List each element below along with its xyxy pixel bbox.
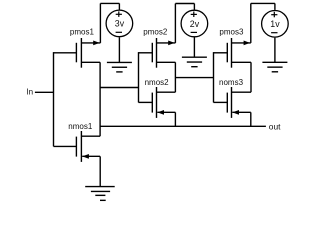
node out label	[269, 122, 281, 132]
nmos nmos2 gate bar	[151, 93, 153, 113]
wire stage1 to stage2 gates branch	[100, 87, 138, 89]
voltage source V1 value 3v	[115, 19, 125, 29]
svg-text:In: In	[26, 88, 33, 97]
ground G1 bar 2	[112, 66, 127, 68]
nmos noms3 source lead	[232, 111, 251, 113]
pmos pmos2 drain lead	[157, 61, 176, 63]
voltage source V2 value 2v	[190, 19, 200, 29]
wire stage1 output node vertical	[99, 62, 101, 136]
pmos transistor pmos3 label	[219, 28, 244, 37]
voltage source V2 circle	[181, 10, 208, 37]
svg-text:nmos2: nmos2	[145, 78, 170, 87]
wire pmos1 source rail up	[99, 3, 101, 43]
voltage source V3 minus sign	[271, 32, 277, 34]
pmos pmos2 source lead	[157, 42, 176, 44]
svg-text:2v: 2v	[190, 19, 200, 29]
svg-text:pmos2: pmos2	[143, 28, 168, 37]
ground G1 bar 3	[116, 71, 122, 73]
pmos pmos3 gate bar	[226, 43, 228, 63]
wire top loop to V3	[251, 2, 275, 4]
nmos nmos1 source lead	[82, 155, 100, 157]
node In label	[26, 88, 33, 97]
svg-text:nmos1: nmos1	[68, 122, 93, 131]
ground G1 bar 1	[107, 61, 132, 63]
voltage source V2 minus sign	[191, 31, 197, 33]
nmos nmos1 gate bar	[75, 137, 77, 157]
wire V3 top stub	[274, 3, 276, 9]
ground G2 bar 2	[187, 61, 202, 63]
wire In lead	[35, 91, 54, 93]
ground G3 bar 1	[262, 61, 287, 63]
pmos pmos3 source arrow	[244, 41, 250, 46]
wire out line	[100, 125, 266, 127]
nmos transistor nmos2 label	[145, 78, 170, 87]
nmos nmos2 gate lead	[139, 101, 153, 103]
pmos pmos1 source arrow	[93, 41, 99, 46]
wire stage2 gate rail	[138, 52, 140, 102]
pmos pmos1 gate bar	[75, 43, 77, 63]
voltage source V3 value 1v	[270, 19, 280, 29]
nmos nmos2 source arrow	[157, 110, 164, 115]
wire stage3 gate rail	[213, 52, 215, 102]
wire top loop to V2	[175, 3, 194, 5]
wire noms3 source down to out line	[250, 112, 252, 126]
ground G4 bar 3	[95, 194, 105, 196]
ground G4 bar 4	[100, 199, 106, 201]
wire In gate rail	[53, 52, 55, 146]
voltage source V1 minus sign	[116, 31, 122, 33]
wire V2 top stub	[193, 4, 195, 10]
pmos transistor pmos2 label	[143, 28, 168, 37]
nmos noms3 channel bar	[231, 87, 233, 118]
voltage source V1 circle	[106, 10, 133, 37]
wire nmos2 source down to out line	[174, 112, 176, 126]
wire top loop to V1	[100, 2, 119, 4]
nmos nmos1 source arrow	[82, 154, 89, 159]
voltage source V2 plus sign	[191, 12, 197, 18]
nmos nmos1 channel bar	[80, 131, 82, 162]
wire pmos3 source rail up	[250, 3, 252, 43]
pmos pmos1 source lead	[81, 42, 100, 44]
nmos transistor nmos1 label	[68, 122, 93, 131]
wire stage2 output node vertical	[174, 62, 176, 92]
pmos pmos1 drain lead	[81, 61, 100, 63]
voltage source V3 plus sign	[271, 12, 277, 17]
wire stage2 to stage3 gates branch	[175, 77, 213, 79]
ground G3 bar 3	[272, 71, 278, 73]
pmos transistor pmos1 label	[70, 28, 95, 37]
nmos nmos1 gate lead	[54, 145, 77, 147]
pmos pmos3 drain lead	[232, 61, 252, 63]
nmos nmos2 drain lead	[157, 91, 176, 93]
nmos nmos2 source lead	[157, 111, 175, 113]
svg-text:out: out	[269, 122, 281, 132]
ground G2 bar 1	[182, 56, 207, 58]
nmos noms3 gate lead	[214, 101, 228, 103]
voltage source V1 plus sign	[116, 11, 122, 17]
wire V3 bottom stub	[274, 38, 276, 63]
nmos nmos1 drain lead	[81, 135, 100, 137]
pmos pmos2 gate lead	[139, 52, 153, 54]
ground G3 bar 2	[267, 66, 282, 68]
svg-text:3v: 3v	[115, 19, 125, 29]
svg-text:1v: 1v	[270, 19, 280, 29]
wire stage3 output node vertical	[250, 62, 252, 92]
nmos noms3 gate bar	[226, 93, 228, 113]
wire V1 bottom stub	[118, 37, 120, 62]
nmos transistor noms3 label	[219, 78, 244, 87]
pmos pmos2 source arrow	[168, 41, 174, 46]
pmos pmos2 channel bar	[156, 38, 158, 68]
wire V2 bottom stub	[193, 37, 195, 57]
nmos noms3 drain lead	[232, 91, 252, 93]
svg-text:noms3: noms3	[219, 78, 244, 87]
svg-text:pmos1: pmos1	[70, 28, 95, 37]
nmos nmos2 channel bar	[156, 87, 158, 118]
pmos pmos1 gate lead	[54, 52, 77, 54]
ground G4 bar 1	[85, 186, 115, 188]
wire V1 top stub	[118, 3, 120, 9]
svg-text:pmos3: pmos3	[219, 28, 244, 37]
ground G2 bar 3	[191, 66, 197, 68]
voltage source V3 circle	[262, 10, 289, 37]
pmos pmos3 source lead	[232, 42, 251, 44]
pmos pmos1 channel bar	[80, 38, 82, 68]
pmos pmos2 gate bar	[151, 43, 153, 63]
wire pmos2 source rail up	[174, 4, 176, 43]
nmos noms3 source arrow	[232, 110, 239, 115]
wire nmos1 source down to ground	[99, 156, 101, 186]
pmos pmos3 gate lead	[214, 52, 228, 54]
pmos pmos3 channel bar	[231, 38, 233, 68]
ground G4 bar 2	[91, 190, 110, 192]
